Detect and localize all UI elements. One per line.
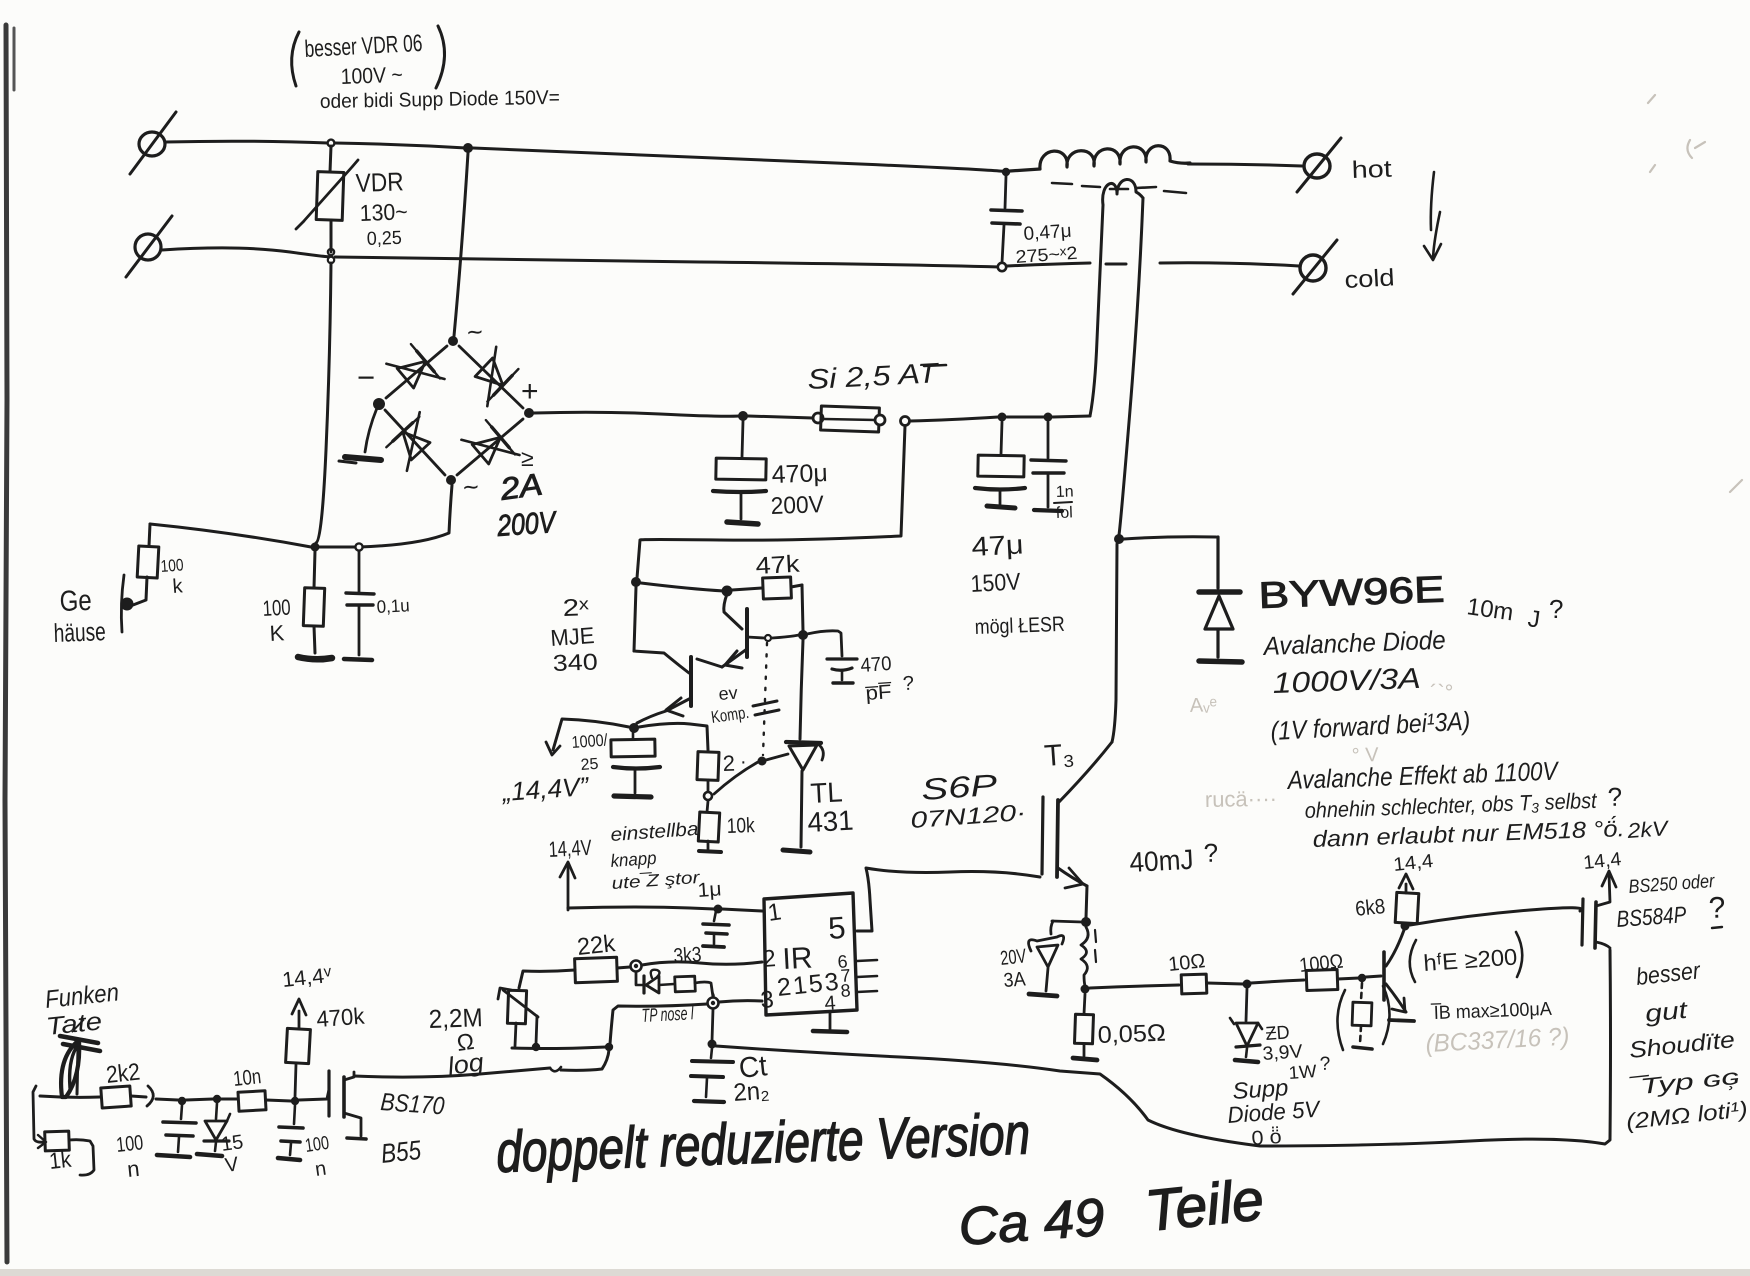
svg-text:fol: fol (1056, 504, 1073, 522)
svg-text:1000V/3A: 1000V/3A (1272, 663, 1421, 700)
title Teile (1143, 1167, 1267, 1244)
junction C (470u tap) (738, 411, 748, 421)
wire ref junction to TL431 (766, 754, 788, 760)
svg-text:1k: 1k (48, 1146, 73, 1174)
svg-text:´`°: ´`° (1430, 680, 1453, 705)
junction O (pot bus corner) (605, 1043, 613, 1051)
resistor R10 100R (1306, 970, 1338, 991)
capacitor C3 47u electrolytic (1001, 422, 1002, 454)
svg-text:mögl ŁESR: mögl ŁESR (974, 613, 1065, 639)
svg-text:BS170: BS170 (380, 1088, 446, 1120)
wire junction I down to TL431 cathode (800, 640, 803, 739)
svg-text:„14,4V”: „14,4V” (500, 771, 590, 807)
svg-text:Teile: Teile (1143, 1167, 1267, 1244)
wire junction A down to bridge node N (454, 153, 468, 336)
optional resistor R12 (dashed, in parens) (1361, 983, 1362, 1001)
wire phase VDR node to main junction (335, 143, 466, 148)
pin 8 stub (857, 991, 877, 992)
svg-text:2: 2 (762, 945, 777, 973)
resistor R16 470k (295, 1064, 296, 1097)
capacitor C1 0.1u (358, 551, 361, 592)
svg-text:B55: B55 (379, 1135, 423, 1169)
pin 6 stub (857, 960, 877, 961)
wire 47k to corner (791, 585, 802, 587)
svg-text:TL: TL (810, 776, 844, 809)
svg-text:n: n (126, 1156, 141, 1182)
junction I (base node) (798, 630, 808, 640)
svg-text:10Ω: 10Ω (1167, 950, 1206, 976)
junction J (emitter output node) (629, 723, 639, 733)
resistor R2 100k (bleeder) (314, 551, 315, 588)
node small open circle Q1 base (765, 635, 771, 641)
resistor R9 10R (1181, 974, 1207, 994)
svg-text:Avalanche Diode: Avalanche Diode (1261, 625, 1446, 661)
bridge edge W-S wire (385, 410, 445, 475)
wire primary bottom down to T3 drain (1112, 544, 1117, 742)
wire to transformer primary top (1053, 416, 1090, 417)
pin 5 wire up and right to T3 gate (857, 868, 1040, 931)
bridge edge N-E wire (459, 346, 523, 408)
capacitor C2 470u electrolytic (742, 421, 743, 457)
transistor Q4 drain lead (1596, 942, 1610, 948)
wire junction V to PMOS gate (1410, 908, 1581, 925)
wire junction H to 47k (732, 588, 762, 590)
wire ref junction to wiper (714, 762, 758, 794)
wire trimmer to 10k (707, 780, 708, 812)
wire R7 to pin3 node (695, 982, 713, 997)
wire open circle to junction I (772, 635, 799, 638)
svg-text:3A: 3A (1003, 968, 1027, 992)
svg-text:MJE: MJE (550, 622, 596, 651)
svg-text:14,4: 14,4 (1392, 851, 1434, 876)
wire junction W to junction X (186, 1099, 213, 1100)
svg-text:Aᵥᵉ: Aᵥᵉ (1189, 694, 1217, 717)
svg-text:VDR: VDR (355, 166, 404, 198)
svg-text:hot: hot (1351, 156, 1392, 184)
wire junction Y to BS170 gate (299, 1090, 329, 1100)
junction P (Ct node) (708, 1040, 717, 1049)
junction R (T3 source node) (1081, 917, 1091, 927)
junction ground bus / 100k (311, 543, 320, 552)
junction Q (wiper on bus) (532, 1043, 540, 1051)
bridge diode D2 (N to E) (475, 358, 503, 385)
svg-text:BS584P: BS584P (1616, 901, 1688, 932)
transistor Q1 base wire to junction I (747, 637, 764, 638)
wire junction T to 100R (1251, 980, 1304, 983)
svg-text:1μ: 1μ (697, 878, 722, 902)
diode D5 BYW96E (1216, 537, 1219, 588)
svg-text:100Ω: 100Ω (1298, 950, 1344, 976)
pin 7 stub (857, 976, 877, 977)
wire junction N left and down to pot bus (610, 1004, 707, 1044)
svg-text:1W: 1W (1288, 1061, 1317, 1083)
junction U (base branch) (1358, 974, 1366, 982)
terminal hot (circle-slash) (1304, 154, 1330, 178)
wire sense node to 10R (1090, 985, 1179, 988)
transistor Q2 MJE340 base bar (689, 657, 693, 706)
wire BS170 drain to control bus (354, 1068, 550, 1077)
transistor T3 gate bar (1042, 797, 1043, 874)
zener D7 20V protection (1052, 921, 1082, 922)
varistor VDR1 body (330, 146, 331, 172)
wire fuse to 47u junction (910, 417, 998, 421)
svg-text:?: ? (902, 673, 914, 695)
potentiometer bottom lead (515, 1023, 516, 1046)
wire junction N down to Ct node (712, 1009, 713, 1041)
svg-text:Ca 49: Ca 49 (957, 1188, 1107, 1257)
resistor R5 10k (698, 812, 719, 842)
junction H (Q1 feed) (722, 586, 733, 597)
svg-text:2kV: 2kV (1626, 817, 1671, 843)
resistor R17 1k (45, 1131, 70, 1151)
svg-text:470k: 470k (316, 1003, 366, 1032)
wire junction L into pin 1 (722, 909, 762, 911)
svg-text:2n₂: 2n₂ (732, 1077, 770, 1107)
capacitor C6 470pF (807, 631, 842, 656)
transistor Q1 MJE340 base bar (745, 609, 749, 657)
svg-text:?: ? (1607, 782, 1623, 812)
svg-text:ev: ev (718, 683, 738, 704)
transistor T3 source with arrow (1058, 868, 1087, 886)
resistor R3 47k (763, 577, 792, 599)
svg-text:100: 100 (160, 555, 184, 576)
ground R5 (707, 841, 710, 849)
svg-text:8: 8 (840, 980, 851, 1001)
svg-text:?: ? (1549, 594, 1563, 624)
wire junction F to BYW96E (1124, 537, 1216, 539)
svg-text:T₃: T₃ (1043, 738, 1075, 773)
junction E (1n tap) (1044, 413, 1053, 422)
wire jumper to junction W (156, 1099, 178, 1100)
svg-text:rucä····: rucä···· (1205, 786, 1278, 812)
capacitor C5 1000u/25 electrolytic (632, 731, 635, 739)
wire 2k2 to jumper (131, 1096, 146, 1097)
wire emitter node left to 14.4V tap (553, 719, 629, 750)
chassis contact dot (121, 598, 134, 611)
svg-text:oder bidi Supp Diode 150V=: oder bidi Supp Diode 150V= (320, 87, 560, 113)
svg-text:+: + (521, 375, 539, 408)
capacitor C0 0.47u X2 (1005, 176, 1006, 208)
terminal cold (circle-slash) (1300, 255, 1326, 281)
svg-text:150V: 150V (970, 568, 1021, 598)
potentiometer R8 2.2M body (507, 990, 526, 1024)
jumper arc (147, 1086, 153, 1106)
wire main gate line start (40, 1096, 100, 1097)
zener D8 ZD 3.9V (1246, 988, 1247, 1021)
junction A (phase / bridge feed) (463, 143, 473, 153)
wire 22k to junction M (617, 967, 630, 968)
junction L (pin1 node) (714, 905, 723, 914)
transistor Q3 collector (1386, 930, 1404, 966)
transistor T3 drain diagonal (1059, 742, 1112, 802)
transistor T3 channel bar (1057, 800, 1058, 877)
svg-text:~: ~ (465, 316, 484, 347)
ground R2 (heavy bar) (298, 657, 332, 659)
wire switch bracket left (33, 1086, 44, 1142)
wire return bus (big loop bottom) (716, 950, 1611, 1146)
transformer primary right vertical to T3 drain node (1119, 198, 1143, 535)
wire pot bus (512, 1047, 606, 1049)
wire ground bus to left 100k corner (150, 524, 311, 547)
svg-text:cold: cold (1344, 264, 1395, 294)
svg-text:470μ: 470μ (771, 459, 828, 489)
transformer core dashes (1052, 183, 1186, 193)
wire 10R to junction T (1207, 983, 1243, 984)
svg-text:5: 5 (827, 910, 847, 946)
junction N circled-plus (pin3 node) (708, 998, 719, 1009)
bridge diode D1 (W to N) (397, 361, 425, 388)
bridge node N (AC top) (448, 336, 458, 346)
svg-text:?: ? (1708, 891, 1726, 925)
wire to 1n junction (1007, 416, 1044, 419)
svg-text:3k3: 3k3 (673, 943, 703, 968)
varistor VDR1 diagonal arrow (296, 160, 358, 229)
title doppelt reduzierte Version (495, 1101, 1031, 1185)
bridge edge S-E wire (457, 419, 523, 475)
ground at bridge minus node (365, 408, 377, 452)
resistor R6 22k (575, 957, 618, 982)
transistor Q1 collector wire (724, 594, 742, 629)
svg-text:1000/: 1000/ (571, 731, 608, 752)
title Ca 49 (957, 1188, 1107, 1257)
wire corner down to junction I (802, 585, 803, 631)
note text (besser VDR 06 (292, 32, 299, 86)
svg-text:14,4: 14,4 (281, 965, 325, 992)
wire 100R to junction U (1338, 978, 1359, 979)
svg-text:200V: 200V (495, 506, 558, 543)
IC U1 IR2153 body (764, 893, 857, 1015)
resistor R15 10n (238, 1091, 266, 1111)
shunt reference U2 TL431 (786, 742, 821, 743)
transistor Q3 base bar (1382, 952, 1386, 1000)
node 0.1u (open circle on bus) (355, 543, 362, 550)
transistor Q2 collector wire (634, 651, 689, 673)
svg-text:20V: 20V (999, 945, 1028, 970)
node VDR top (small open junction) (328, 140, 335, 147)
svg-text:0,25: 0,25 (366, 228, 402, 250)
junction T (ZD node) (1243, 980, 1252, 989)
wire ground bus to 100k junction (315, 546, 355, 549)
svg-text:431: 431 (807, 805, 855, 838)
svg-text:0,05Ω: 0,05Ω (1097, 1020, 1166, 1049)
svg-text:BYW96E: BYW96E (1258, 569, 1445, 616)
svg-text:130~: 130~ (359, 198, 408, 226)
transformer primary left vertical (1090, 205, 1103, 416)
svg-text:2: 2 (722, 751, 735, 776)
svg-text:15: 15 (220, 1131, 245, 1156)
svg-text:100: 100 (262, 595, 291, 621)
wire junction X to 10n (221, 1098, 237, 1101)
transistor Q5 channel bar (342, 1077, 346, 1117)
bridge node E (plus) (524, 408, 534, 418)
transistor Q2 emitter with arrow (668, 698, 691, 710)
svg-text:14,4V: 14,4V (548, 835, 592, 862)
svg-text:6k8: 6k8 (1354, 895, 1386, 921)
transistor Q5 drain lead (344, 1072, 354, 1080)
junction V (6k8 node) (1401, 922, 1410, 931)
wire junction M down to diode (635, 972, 638, 984)
svg-text:?: ? (1319, 1054, 1330, 1075)
svg-text:47μ: 47μ (971, 529, 1024, 562)
svg-text:0,1u: 0,1u (376, 595, 410, 617)
svg-text:10k: 10k (726, 814, 755, 838)
diode D6 (pin2 branch) (646, 976, 659, 993)
wire 22k left lead to pot (519, 970, 575, 988)
transistor Q5 BS170 gate bar (327, 1071, 330, 1116)
transistor Q1 emitter with arrow (722, 649, 747, 667)
svg-text:0,47μ: 0,47μ (1023, 221, 1072, 245)
transistor Q4 channel bar (1595, 902, 1596, 948)
svg-text:p̅F̅: p̅F̅ (865, 680, 893, 705)
ev Komp dotted line (763, 643, 767, 755)
junction M circled-plus (pin2 node) (631, 961, 642, 972)
wire emitter node to trimmer top (639, 723, 708, 750)
junction W (100n node) (178, 1097, 186, 1105)
junction F (primary bottom / BYW96E) (1114, 534, 1124, 544)
node 0.47u bottom (open circle) (998, 263, 1006, 271)
junction D (47u tap) (998, 413, 1007, 422)
pin 4 ground lead (829, 1013, 832, 1029)
switch S1 contact pad (60, 1036, 100, 1051)
capacitor C10 100n (294, 1105, 295, 1124)
potentiometer wiper wire (536, 1016, 537, 1044)
bridge node W (minus) (373, 398, 385, 410)
transistor Q4 source lead up (1596, 874, 1610, 906)
junction Y (470k node) (291, 1097, 299, 1105)
resistor R14 2k2 (101, 1086, 131, 1108)
label BYW96E (1258, 569, 1445, 616)
capacitor C7 1M from pin1 node (714, 911, 716, 921)
resistor R1 100k (to chassis) (149, 524, 150, 546)
arrow current direction (down) (1431, 172, 1434, 230)
wire phase from J1 to VDR node (165, 141, 328, 143)
svg-text:100V ~: 100V ~ (340, 62, 403, 89)
wire junction N to pin 3 (719, 1001, 762, 1002)
svg-text:100: 100 (304, 1133, 331, 1157)
transformer primary winding loops (1103, 179, 1143, 205)
resistor R13 6k8 (1395, 892, 1419, 923)
fuse F1 Si 2.5AT body (813, 413, 823, 423)
svg-text:Ge: Ge (59, 585, 92, 618)
ground C1 (344, 659, 372, 660)
transistor Q5 source lead (344, 1113, 361, 1136)
capacitor C8 Ct 2n2 (711, 1048, 712, 1058)
svg-text:häuse: häuse (53, 616, 106, 648)
wire junction C to fuse (748, 416, 813, 418)
capacitor C9 100n (181, 1105, 182, 1119)
junction B (0.47u top) (1002, 168, 1010, 176)
potentiometer arrow (503, 990, 538, 1017)
switch S1 lever (61, 1040, 79, 1097)
svg-text:−: − (357, 360, 375, 395)
scanner bottom edge (0, 1269, 1750, 1276)
svg-text:Ta̷te: Ta̷te (45, 1007, 104, 1041)
svg-text:14,4: 14,4 (1582, 849, 1622, 874)
svg-text:I̅B max≥100μA: I̅B max≥100μA (1430, 999, 1552, 1024)
svg-text:gut: gut (1644, 997, 1690, 1028)
svg-text:~: ~ (461, 471, 480, 502)
bridge node S (AC bottom) (446, 475, 456, 485)
wire hot lead to terminal (1188, 164, 1302, 166)
trimmer R4 upper half (2) (697, 752, 719, 781)
wire fuse branch down to regulator rail (637, 426, 905, 578)
junction K (TL431 ref) (758, 757, 767, 766)
junction X (15V node) (213, 1095, 221, 1103)
svg-text:4: 4 (824, 992, 837, 1015)
junction S (sense node) (1081, 985, 1090, 994)
wire VDR bottom node down to ground bus (316, 263, 331, 543)
wire phase junction A to transformer secondary (473, 148, 1005, 172)
resistor R7 3k3 (659, 984, 674, 985)
wire 14.4V rail to pin1 (568, 907, 714, 909)
svg-text:knapp: knapp (610, 848, 657, 871)
wire bridge plus to fuse (534, 412, 739, 416)
svg-text:100: 100 (115, 1131, 144, 1157)
wire neutral from J2 to VDR bottom node (162, 248, 332, 257)
wire bridge S down to ground bus (359, 485, 452, 547)
wire neutral VDR node to 0.47u bottom (335, 257, 1000, 267)
capacitor ev Komp marks (753, 701, 779, 715)
terminal J1 (mains phase input, circle-slash) (139, 132, 165, 156)
bridge edge N-W wire (386, 346, 447, 398)
resistor R11 0.05R shunt (1084, 994, 1085, 1014)
svg-text:TP nose l: TP nose l (641, 1003, 695, 1027)
node VDR bottom (double open circles) (328, 249, 334, 255)
wire junction U to Q3 base (1366, 976, 1381, 977)
svg-text:22k: 22k (576, 930, 618, 961)
junction G (regulator rail left) (631, 577, 641, 587)
zener D9 15V (216, 1103, 217, 1119)
svg-text:2ˣ: 2ˣ (562, 594, 589, 622)
faint pencil marks top-right corner (1648, 95, 1742, 492)
bridge diode D3 (S to W) (403, 432, 430, 460)
wire neutral to cold terminal with transformer crossover break (1007, 263, 1090, 266)
label hFE>=200 (1410, 940, 1416, 982)
wire junction M to pin 2 (642, 962, 762, 965)
svg-text:1n: 1n (1056, 483, 1074, 501)
svg-text:40mJ: 40mJ (1129, 844, 1195, 878)
svg-text:470: 470 (860, 653, 892, 677)
wire: scanner edge artifact left border (5, 25, 7, 1262)
transistor Q3 emitter with arrow (1386, 984, 1406, 1012)
svg-text:?: ? (1203, 838, 1219, 868)
svg-text:340: 340 (552, 648, 598, 676)
wire rail to 47k (641, 583, 724, 591)
wire 10n to junction Y (266, 1100, 291, 1101)
current sense squiggle (1081, 927, 1088, 986)
svg-text:200V: 200V (770, 491, 824, 520)
svg-text:10n: 10n (232, 1065, 262, 1091)
capacitor C4 1n foil (1047, 422, 1050, 458)
bridge diode D4 (S to E) (472, 437, 500, 464)
svg-text:K: K (269, 620, 285, 646)
transistor Q4 BS250 gate bar (1582, 899, 1583, 945)
terminal J2 (mains neutral input, circle-slash) (135, 234, 161, 260)
svg-text:2k2: 2k2 (105, 1059, 142, 1089)
inductor L1 secondary winding (5 loops) (1010, 146, 1190, 171)
svg-text:47k: 47k (755, 551, 801, 580)
wire rail-left vertical (collectors) (634, 587, 636, 651)
svg-text:2A: 2A (497, 466, 545, 507)
node trimmer wiper (open circle) (704, 792, 712, 800)
